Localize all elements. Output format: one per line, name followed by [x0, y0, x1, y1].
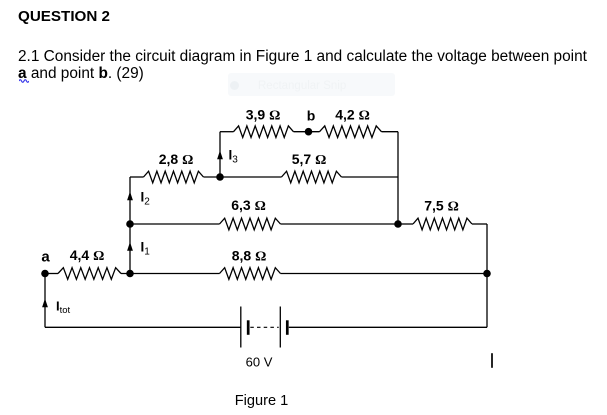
- resistor 4,2 ohm zigzag: [320, 126, 382, 138]
- node junction dot at 6,3 / 7,5 junction: [394, 220, 402, 228]
- label 60 V: [246, 355, 273, 370]
- wire: right vertical bottom: [486, 274, 488, 328]
- label I2: [141, 190, 151, 208]
- svg-text:a: a: [41, 249, 50, 266]
- svg-text:Figure 1: Figure 1: [235, 393, 289, 409]
- resistor 7,5 ohm zigzag: [413, 218, 472, 230]
- svg-text:I2: I2: [141, 190, 151, 208]
- label a: [41, 249, 50, 266]
- resistor 4,4 ohm zigzag: [58, 268, 121, 280]
- resistor 5,7 ohm zigzag: [282, 171, 342, 183]
- svg-text:Itot: Itot: [56, 299, 71, 317]
- wire: 6,3 branch horizontal segments: [130, 223, 398, 225]
- arrow I2: [127, 192, 133, 201]
- svg-text:b: b: [307, 108, 316, 124]
- node junction dot at 6,3 branch left: [126, 220, 134, 228]
- arrow I1: [127, 242, 133, 251]
- resistor 8,8 ohm zigzag: [220, 268, 281, 280]
- svg-text:7,5 Ω: 7,5 Ω: [424, 198, 459, 215]
- label b: [307, 108, 316, 124]
- label 7,5 ohm: [424, 198, 459, 215]
- wire: bottom wire right of battery: [289, 326, 487, 328]
- svg-text:2,8 Ω: 2,8 Ω: [159, 151, 194, 168]
- label 3,9 ohm: [246, 107, 281, 124]
- cursor bar: [491, 353, 493, 368]
- label Itot: [56, 299, 71, 317]
- wire: bottom wire left of battery: [45, 326, 241, 328]
- label I3: [229, 148, 239, 166]
- heading QUESTION 2: [18, 8, 110, 25]
- label 5,7 ohm: [292, 151, 327, 168]
- resistor 3,9 ohm zigzag: [234, 126, 294, 138]
- battery 60 V: [241, 307, 287, 348]
- svg-text:I1: I1: [141, 240, 151, 258]
- wire: bottom branch horizontal segments: [45, 273, 487, 275]
- label 4,4 ohm: [70, 247, 105, 264]
- watermark Rectangular Snip: [228, 73, 395, 96]
- svg-text:6,3 Ω: 6,3 Ω: [231, 197, 266, 214]
- label 2,8 ohm: [159, 151, 194, 168]
- wire: middle branch horizontal segments: [130, 176, 398, 178]
- node junction dot between 2,8 and 5,7: [216, 173, 224, 181]
- svg-text:60 V: 60 V: [246, 355, 273, 370]
- arrow I3: [217, 151, 223, 160]
- node junction dot at bottom right: [483, 270, 491, 278]
- label 4,2 ohm: [335, 107, 370, 124]
- spellcheck squiggle under a: [19, 78, 29, 83]
- label 8,8 ohm: [232, 248, 267, 265]
- wire: top branch horizontal segments: [220, 131, 398, 133]
- wire: I3 vertical from top branch down to middle branch: [219, 132, 221, 177]
- svg-text:4,2 Ω: 4,2 Ω: [335, 107, 370, 124]
- resistor 6,3 ohm zigzag: [220, 218, 281, 230]
- wire: right vertical from top branch down to 7,5 branch: [397, 132, 399, 224]
- node junction dot at I1 branch point: [126, 270, 134, 278]
- label 6,3 ohm: [231, 197, 266, 214]
- svg-text:8,8 Ω: 8,8 Ω: [232, 248, 267, 265]
- svg-text:3,9 Ω: 3,9 Ω: [246, 107, 281, 124]
- label I1: [141, 240, 151, 258]
- svg-text:4,4 Ω: 4,4 Ω: [70, 247, 105, 264]
- resistor 2,8 ohm zigzag: [144, 171, 204, 183]
- question paragraph: [18, 48, 587, 82]
- wire: right vertical from 7,5 down to bottom branch: [486, 224, 488, 274]
- svg-text:I3: I3: [229, 148, 239, 166]
- node a dot: [41, 270, 49, 278]
- wire: left vertical from a down to battery wire: [44, 274, 46, 328]
- arrow Itot: [42, 299, 48, 308]
- svg-text:5,7 Ω: 5,7 Ω: [292, 151, 327, 168]
- wire: left vertical from middle branch down to bottom branch: [129, 177, 131, 274]
- wire: 7,5 branch horizontal segments: [398, 223, 487, 225]
- node b dot: [305, 128, 313, 136]
- caption Figure 1: [235, 393, 289, 409]
